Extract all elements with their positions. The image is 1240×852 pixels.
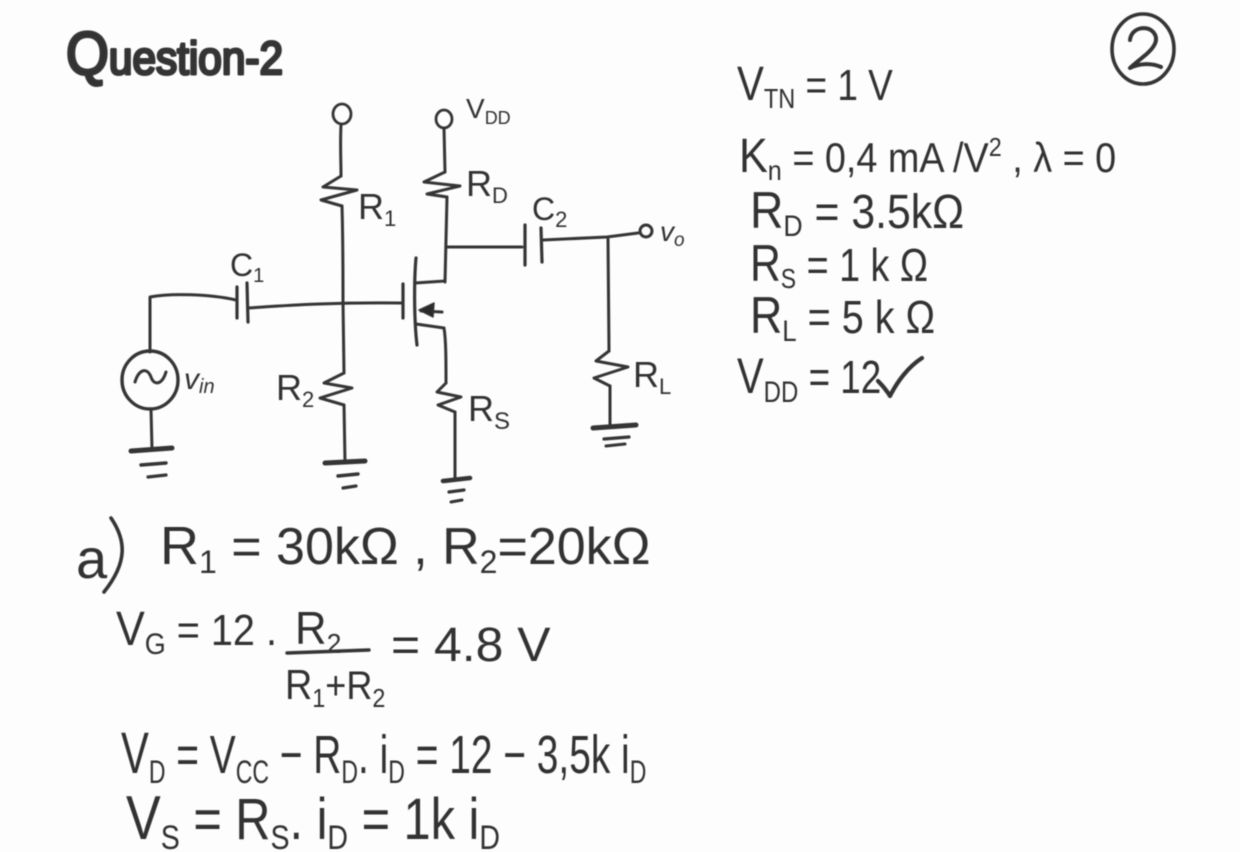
wire vin to ground xyxy=(151,409,152,449)
equation VD = Vcc - RD . iD = 12 - 3.5k iD xyxy=(121,720,646,790)
svg-text:R1: R1 xyxy=(358,186,396,231)
wire RS to ground xyxy=(454,412,457,477)
resistor R1 xyxy=(321,176,357,206)
wire RL to ground xyxy=(609,386,612,424)
label R2 xyxy=(276,367,314,412)
capacitor C2 xyxy=(525,225,542,265)
terminal (R1 top, open circle) xyxy=(333,104,351,124)
svg-text:= 4.8 V: = 4.8 V xyxy=(391,619,551,672)
ground (RL) xyxy=(593,425,636,446)
label vo xyxy=(660,216,685,251)
resistor R2 xyxy=(320,373,352,405)
wire output node to RL xyxy=(608,239,609,351)
wire R2 to ground xyxy=(344,405,345,462)
svg-text:VDD = 12: VDD = 12 xyxy=(737,348,881,409)
label C2 xyxy=(532,191,567,232)
wire C2 to vo terminal xyxy=(543,233,638,240)
wire C1 to MOSFET gate (through gate node) xyxy=(248,303,402,308)
svg-text:vin: vin xyxy=(184,363,215,398)
svg-text:RS: RS xyxy=(468,388,510,435)
capacitor C1 xyxy=(237,283,248,322)
svg-text:Kn = 0,4 mA /V2 , λ = 0: Kn = 0,4 mA /V2 , λ = 0 xyxy=(739,129,1116,186)
ground (RS) xyxy=(443,478,470,502)
label vin xyxy=(184,363,215,398)
resistor RD xyxy=(424,172,460,197)
label VDD xyxy=(466,93,511,128)
svg-text:VS = RS. iD = 1k iD: VS = RS. iD = 1k iD xyxy=(126,784,500,852)
terminal VDD (open circle) xyxy=(436,110,452,128)
svg-text:RD = 3.5kΩ: RD = 3.5kΩ xyxy=(750,182,964,244)
svg-text:a: a xyxy=(76,527,108,590)
svg-text:RD: RD xyxy=(466,163,508,208)
wire R1 top terminal to R1 xyxy=(339,125,342,176)
transistor M1 (NMOS) xyxy=(403,258,445,345)
svg-text:VD = VCC − RD. iD = 12 − 3,5k: VD = VCC − RD. iD = 12 − 3,5k iD xyxy=(121,720,646,790)
ground (vin) xyxy=(131,448,172,477)
svg-text:C2: C2 xyxy=(532,191,567,232)
svg-text:VTN = 1 V: VTN = 1 V xyxy=(737,58,893,115)
terminal vo (open circle) xyxy=(640,225,652,237)
equation VG = 12 . R2/(R1+R2) = 4.8 V xyxy=(116,602,551,713)
note R1 = 30 kOhm , R2 = 20 kOhm xyxy=(160,516,651,580)
resistor RL xyxy=(594,351,628,386)
svg-text:R1 = 30kΩ , R2=20kΩ: R1 = 30kΩ , R2=20kΩ xyxy=(160,516,651,580)
svg-text:R2: R2 xyxy=(276,367,314,412)
svg-text:R1+R2: R1+R2 xyxy=(285,662,385,713)
label RL xyxy=(633,354,671,399)
title Question-2 xyxy=(66,21,283,88)
label RD xyxy=(466,163,508,208)
note Kn = 0.4 mA/V^2, lambda = 0 xyxy=(739,129,1116,186)
label R1 xyxy=(358,186,396,231)
svg-text:VG = 12 .: VG = 12 . xyxy=(116,602,277,661)
resistor R2 wire from gate node xyxy=(343,302,344,373)
label RS xyxy=(468,388,510,435)
svg-text:VDD: VDD xyxy=(466,93,511,128)
wire R1 to gate node xyxy=(342,206,343,302)
wire source to RS xyxy=(444,328,446,383)
wire vin to C1 xyxy=(150,295,236,352)
note VTN = 1 V xyxy=(737,58,893,115)
svg-text:RL: RL xyxy=(633,354,671,399)
note RD = 3.5 kOhm xyxy=(750,182,964,244)
equation VS = RS . iD = 1k iD xyxy=(126,784,500,852)
wire VDD to RD xyxy=(444,128,445,172)
note VDD = 12 (check) xyxy=(737,348,922,409)
note RL = 5 kOhm xyxy=(750,287,935,348)
part label a) xyxy=(76,518,122,592)
source vin (AC source circle with sine) xyxy=(122,351,178,409)
wire drain node to C2 xyxy=(446,246,522,249)
svg-text:RL = 5 k Ω: RL = 5 k Ω xyxy=(750,287,935,348)
svg-text:RS = 1 k Ω: RS = 1 k Ω xyxy=(750,235,928,294)
label C1 xyxy=(230,247,264,287)
svg-text:vo: vo xyxy=(660,216,685,251)
resistor RS xyxy=(437,383,461,412)
note RS = 1 kOhm xyxy=(750,235,928,294)
page number 2 (circled) xyxy=(1112,14,1174,84)
wire RD to drain (drain node vertical) xyxy=(445,197,447,282)
svg-text:C1: C1 xyxy=(230,247,264,287)
svg-text:Question-2: Question-2 xyxy=(66,21,283,88)
ground (R2) xyxy=(325,461,365,488)
